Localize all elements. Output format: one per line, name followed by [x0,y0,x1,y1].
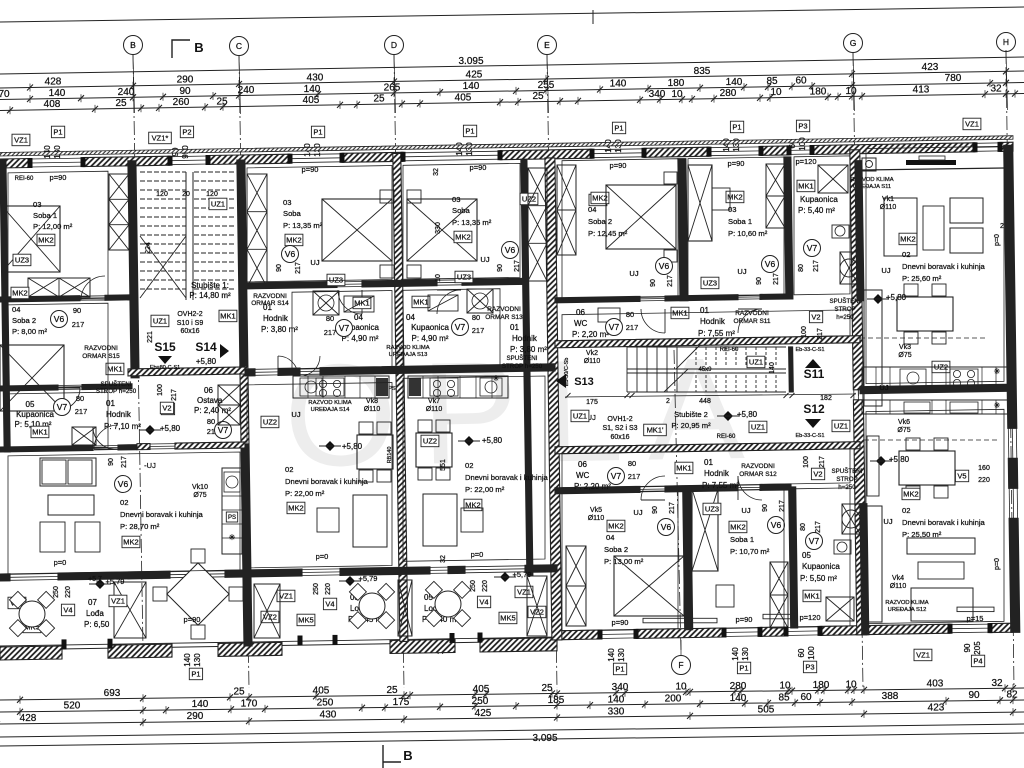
svg-text:P3: P3 [798,122,807,131]
svg-text:p=90: p=90 [728,159,745,168]
svg-text:85: 85 [766,76,778,87]
svg-text:140: 140 [769,362,776,374]
svg-text:32: 32 [433,168,440,176]
svg-text:02: 02 [285,465,293,474]
svg-text:01: 01 [700,306,709,315]
svg-text:280: 280 [720,88,737,99]
svg-text:175: 175 [393,697,410,708]
svg-text:200: 200 [665,694,682,705]
svg-text:+5,80: +5,80 [737,410,758,419]
svg-text:217: 217 [819,456,826,468]
svg-text:MK2: MK2 [38,236,53,245]
svg-text:07: 07 [88,598,97,607]
svg-text:182: 182 [820,395,832,402]
svg-text:140: 140 [183,653,192,667]
svg-text:p=0: p=0 [994,558,1001,570]
svg-text:265: 265 [384,83,401,94]
svg-text:P: 8,00 m²: P: 8,00 m² [12,327,47,336]
svg-text:V6: V6 [659,261,670,271]
svg-text:P: 13,35 m²: P: 13,35 m² [452,218,492,227]
svg-text:P: 28,70 m²: P: 28,70 m² [120,522,160,531]
svg-text:P4: P4 [973,657,982,666]
svg-text:255: 255 [538,80,555,91]
svg-text:100: 100 [157,384,164,396]
svg-text:MK1: MK1 [798,182,813,191]
svg-text:80: 80 [207,417,215,426]
svg-text:140: 140 [726,77,743,88]
svg-text:Dnevni boravak i kuhinja: Dnevni boravak i kuhinja [465,473,549,482]
svg-text:175: 175 [586,399,598,406]
svg-text:280: 280 [730,681,747,692]
svg-text:220: 220 [978,477,990,484]
svg-text:p=90: p=90 [184,615,201,624]
svg-text:V7: V7 [455,322,466,332]
svg-text:250: 250 [313,583,320,595]
svg-text:V6: V6 [765,259,776,269]
svg-text:ORMAR S15: ORMAR S15 [82,353,120,360]
svg-text:Eb-33-C-S1: Eb-33-C-S1 [795,433,824,439]
svg-text:80: 80 [326,314,334,323]
svg-text:60: 60 [797,648,806,657]
svg-text:V2: V2 [813,470,822,479]
svg-text:p=120: p=120 [799,613,820,622]
svg-text:UJ: UJ [629,269,638,278]
svg-text:Ø110: Ø110 [588,515,605,522]
svg-text:180: 180 [813,680,830,691]
svg-text:RAZVOD KLIMA: RAZVOD KLIMA [386,345,429,351]
svg-text:85: 85 [778,692,790,703]
svg-text:04: 04 [588,205,596,214]
svg-text:RAZVODNI: RAZVODNI [487,306,521,313]
svg-text:551: 551 [440,459,447,471]
svg-text:217: 217 [324,328,337,337]
svg-text:425: 425 [466,70,483,81]
svg-text:100: 100 [807,646,816,660]
svg-text:UJ: UJ [291,410,300,419]
svg-text:Vk7: Vk7 [428,398,440,405]
svg-text:MK1': MK1' [647,426,664,435]
svg-text:Dnevni boravak i kuhinja: Dnevni boravak i kuhinja [285,477,369,486]
svg-text:06: 06 [578,460,587,469]
svg-text:10: 10 [435,274,442,282]
svg-text:UJ: UJ [480,255,489,264]
svg-text:430: 430 [320,710,337,721]
svg-text:S11: S11 [804,367,825,381]
svg-text:V7: V7 [609,322,620,332]
svg-text:p=90: p=90 [302,165,319,174]
svg-text:520: 520 [64,701,81,712]
svg-text:V6: V6 [505,245,516,255]
svg-text:10: 10 [675,682,687,693]
svg-text:217: 217 [813,260,820,272]
svg-text:80: 80 [800,523,807,531]
svg-text:UZ1: UZ1 [153,317,167,326]
svg-text:Ø110: Ø110 [584,358,601,365]
svg-text:p=0: p=0 [994,234,1001,246]
svg-text:428: 428 [20,713,37,724]
svg-text:REI-60: REI-60 [717,434,736,440]
svg-text:10: 10 [779,680,791,691]
svg-text:p=0: p=0 [316,552,329,561]
svg-text:250: 250 [470,580,477,592]
svg-text:P: 6,50: P: 6,50 [84,620,110,629]
svg-text:Ø75: Ø75 [897,427,910,434]
svg-text:VZ1: VZ1 [517,588,531,597]
svg-text:10: 10 [770,87,782,98]
svg-text:P1: P1 [465,127,474,136]
svg-text:+5,7: +5,7 [88,576,102,583]
svg-text:140: 140 [731,647,740,661]
svg-text:02: 02 [120,498,128,507]
svg-text:ORMAR S12: ORMAR S12 [739,471,777,478]
svg-text:205: 205 [973,641,982,655]
svg-text:UZ3: UZ3 [15,256,29,265]
svg-text:Hodnik: Hodnik [263,314,289,323]
svg-text:90: 90 [650,279,657,287]
svg-text:ORMAR S13: ORMAR S13 [485,314,523,321]
svg-text:P1: P1 [191,670,200,679]
svg-text:05: 05 [26,400,35,409]
svg-text:01: 01 [106,399,115,408]
svg-text:UZ2: UZ2 [522,195,536,204]
svg-text:217: 217 [628,472,641,481]
svg-text:340: 340 [649,89,666,100]
svg-text:06: 06 [576,308,585,317]
svg-text:220: 220 [482,580,489,592]
svg-text:WC: WC [574,319,588,328]
svg-text:UJ: UJ [633,508,642,517]
svg-text:UZ1: UZ1 [751,423,765,432]
svg-text:MK1: MK1 [804,592,819,601]
svg-text:VZ1: VZ1 [965,120,979,129]
svg-text:217: 217 [472,326,485,335]
svg-text:MK2: MK2 [123,538,138,547]
svg-text:Vk5: Vk5 [590,507,602,514]
svg-text:32: 32 [991,678,1003,689]
svg-text:S1, S2 i S3: S1, S2 i S3 [602,425,637,432]
svg-text:p=120: p=120 [795,157,816,166]
svg-text:Hodnik: Hodnik [704,469,730,478]
svg-text:160: 160 [978,465,990,472]
svg-text:P: 12,45 m²: P: 12,45 m² [588,229,628,238]
svg-text:25: 25 [233,687,245,698]
svg-text:V7: V7 [218,425,229,435]
svg-text:p=90: p=90 [736,615,753,624]
svg-text:2: 2 [1000,223,1004,230]
svg-text:P1: P1 [615,665,624,674]
svg-text:V2: V2 [162,404,171,413]
svg-text:90: 90 [108,458,115,466]
svg-text:UREĐAJA S12: UREĐAJA S12 [888,607,927,613]
svg-text:MK2: MK2 [903,490,918,499]
svg-text:3.095: 3.095 [458,56,483,67]
svg-text:+5,80: +5,80 [482,436,503,445]
svg-text:VZ1*: VZ1* [152,134,169,143]
svg-text:408: 408 [44,99,61,110]
svg-text:505: 505 [758,705,775,716]
svg-text:693: 693 [104,688,121,699]
svg-text:140: 140 [463,81,480,92]
svg-text:MK1: MK1 [676,464,691,473]
svg-text:P: 2,20 m²: P: 2,20 m² [574,482,611,491]
svg-text:UJ: UJ [737,267,746,276]
svg-text:Kupaonica: Kupaonica [800,195,838,204]
svg-text:120: 120 [156,191,168,198]
svg-text:MK1: MK1 [107,365,122,374]
svg-text:V5: V5 [957,472,966,481]
svg-text:20: 20 [182,191,190,198]
svg-text:S15: S15 [154,340,176,354]
svg-text:G: G [850,38,857,48]
svg-text:217: 217 [669,502,676,514]
svg-text:82: 82 [1006,690,1018,701]
svg-text:UZ1: UZ1 [749,358,763,367]
svg-text:Vk10: Vk10 [192,484,208,491]
svg-text:Ø110: Ø110 [364,406,381,413]
svg-text:01: 01 [704,458,713,467]
svg-text:25: 25 [386,685,398,696]
svg-text:03: 03 [283,198,291,207]
svg-text:VZ1: VZ1 [279,592,293,601]
svg-text:UZ1: UZ1 [573,412,587,421]
svg-text:Vk3: Vk3 [899,344,911,351]
svg-text:80: 80 [76,394,84,403]
svg-text:70: 70 [0,89,10,100]
svg-text:217: 217 [773,273,780,285]
svg-text:h=250: h=250 [838,484,856,491]
svg-text:Vk8: Vk8 [366,398,378,405]
svg-text:UZ2: UZ2 [423,437,437,446]
svg-text:185: 185 [548,695,565,706]
svg-text:UZ3: UZ3 [703,279,717,288]
svg-text:Lođa: Lođa [86,609,104,618]
svg-text:STROP: STROP [834,306,855,313]
svg-text:Soba 1: Soba 1 [730,535,754,544]
svg-text:+5,79: +5,79 [106,577,125,586]
svg-text:UZ2: UZ2 [263,418,277,427]
svg-text:Stubište 1:: Stubište 1: [191,281,229,290]
svg-text:32: 32 [440,555,447,563]
svg-text:Dnevni boravak i kuhinja: Dnevni boravak i kuhinja [902,262,986,271]
svg-text:90: 90 [963,643,972,652]
svg-text:V6: V6 [661,522,672,532]
svg-text:388: 388 [882,691,899,702]
svg-text:90: 90 [179,86,191,97]
svg-text:MK2: MK2 [608,522,623,531]
svg-text:Ø75: Ø75 [193,492,206,499]
svg-text:MK2: MK2 [288,504,303,513]
svg-text:STROP h=250: STROP h=250 [96,388,137,395]
svg-text:B: B [194,40,203,55]
svg-text:10: 10 [845,680,857,691]
svg-text:REI-60: REI-60 [720,347,739,353]
svg-text:04: 04 [606,533,614,542]
svg-text:90: 90 [652,506,659,514]
svg-text:25: 25 [373,94,385,105]
svg-text:UREĐAJA S13: UREĐAJA S13 [389,352,428,358]
svg-text:60x16: 60x16 [610,434,629,441]
svg-text:H: H [1003,37,1009,47]
svg-text:25: 25 [115,98,127,109]
svg-text:224: 224 [145,242,152,254]
svg-text:✳: ✳ [229,533,236,542]
svg-text:2: 2 [666,398,670,405]
svg-text:217: 217 [72,320,85,329]
svg-text:SPUŠTENI: SPUŠTENI [507,355,538,362]
svg-text:Eb-30/C-Sb: Eb-30/C-Sb [564,358,570,387]
svg-text:140: 140 [49,88,66,99]
svg-text:25: 25 [216,96,228,107]
svg-text:OVH1-2: OVH1-2 [607,416,632,423]
svg-text:OVH2-2: OVH2-2 [177,311,202,318]
svg-text:MK1: MK1 [413,298,428,307]
svg-text:MK5: MK5 [298,616,313,625]
svg-text:P: 5,40 m²: P: 5,40 m² [798,206,835,215]
svg-text:MK1: MK1 [354,299,369,308]
svg-text:UZ3: UZ3 [457,273,471,282]
svg-text:250: 250 [53,586,60,598]
svg-text:VZ1: VZ1 [916,651,930,660]
svg-text:290: 290 [187,711,204,722]
svg-text:448: 448 [699,398,711,405]
svg-text:+5,79: +5,79 [359,574,378,583]
svg-text:V6: V6 [118,479,129,489]
svg-text:P1: P1 [614,124,623,133]
svg-text:405: 405 [455,92,472,103]
svg-text:405: 405 [303,95,320,106]
svg-text:UZ1: UZ1 [211,200,225,209]
svg-text:ORMAR S11: ORMAR S11 [733,318,770,325]
svg-text:RAZVODNI: RAZVODNI [84,345,118,352]
svg-text:03: 03 [728,205,736,214]
svg-text:Soba: Soba [283,209,302,218]
svg-text:Soba: Soba [452,206,471,215]
svg-text:780: 780 [945,73,962,84]
svg-text:25: 25 [541,683,553,694]
svg-text:P: 4,90 m²: P: 4,90 m² [412,334,449,343]
svg-text:180: 180 [668,78,685,89]
svg-text:835: 835 [694,66,711,77]
svg-text:Dnevni boravak i kuhinja: Dnevni boravak i kuhinja [120,510,204,519]
svg-text:P2: P2 [182,128,191,137]
svg-text:130: 130 [617,648,626,662]
svg-text:428: 428 [45,77,62,88]
svg-text:140: 140 [722,138,731,152]
svg-text:05: 05 [802,551,811,560]
svg-text:01: 01 [510,323,519,332]
svg-text:425: 425 [475,708,492,719]
svg-text:220: 220 [65,586,72,598]
svg-text:UJ: UJ [310,258,319,267]
svg-text:RAZVOD KLIMA: RAZVOD KLIMA [308,400,351,406]
svg-text:Stubište 2: Stubište 2 [674,410,708,419]
svg-text:P3: P3 [805,663,814,672]
svg-text:V7: V7 [611,471,622,481]
svg-text:p=90: p=90 [612,618,629,627]
svg-text:100: 100 [801,326,808,338]
svg-text:P1: P1 [732,123,741,132]
svg-text:140: 140 [610,79,627,90]
svg-text:Eb=80-C-S1: Eb=80-C-S1 [150,365,180,371]
svg-text:P: 14,80 m²: P: 14,80 m² [189,291,231,300]
svg-text:p=90: p=90 [610,161,627,170]
svg-text:Ø110: Ø110 [890,583,907,590]
svg-text:217: 217 [121,456,128,468]
svg-text:RAZVODNI: RAZVODNI [741,463,775,470]
svg-text:p=0: p=0 [471,550,484,559]
svg-text:25: 25 [532,91,544,102]
svg-text:140: 140 [192,699,209,710]
svg-text:VZ1: VZ1 [111,597,125,606]
svg-text:UZ1: UZ1 [834,422,848,431]
svg-text:+5,79: +5,79 [513,570,532,579]
svg-text:P: 20,95 m²: P: 20,95 m² [671,421,711,430]
svg-text:P1: P1 [313,128,322,137]
svg-text:S10 i S9: S10 i S9 [177,320,204,327]
svg-text:p=0: p=0 [54,558,67,567]
svg-text:P: 2,20 m²: P: 2,20 m² [572,330,609,339]
svg-text:P: 25,60 m²: P: 25,60 m² [902,274,942,283]
svg-text:330: 330 [435,222,442,234]
svg-text:Soba 1: Soba 1 [728,217,752,226]
svg-text:430: 430 [307,72,324,83]
svg-text:MK2: MK2 [455,233,470,242]
svg-text:P: 7,10 m²: P: 7,10 m² [104,422,141,431]
svg-text:220: 220 [325,583,332,595]
svg-text:P: 10,60 m²: P: 10,60 m² [728,229,768,238]
svg-text:Dnevni boravak i kuhinja: Dnevni boravak i kuhinja [902,518,986,527]
svg-text:E: E [544,40,550,50]
svg-text:P: 22,00 m²: P: 22,00 m² [285,489,325,498]
svg-text:Vk4: Vk4 [892,575,904,582]
svg-text:Hodnik: Hodnik [512,334,538,343]
svg-text:217: 217 [779,500,786,512]
svg-text:UJ: UJ [881,266,890,275]
svg-text:P1: P1 [739,664,748,673]
svg-text:02: 02 [902,506,910,515]
svg-text:P: 22,00 m²: P: 22,00 m² [465,485,505,494]
svg-text:130: 130 [193,653,202,667]
svg-text:UJ: UJ [879,383,888,392]
svg-text:V4: V4 [63,606,72,615]
svg-text:SPUŠTENI: SPUŠTENI [832,468,863,475]
svg-text:130: 130 [741,647,750,661]
svg-text:217: 217 [171,389,178,401]
svg-text:Soba 1: Soba 1 [33,211,57,220]
svg-text:217: 217 [667,275,674,287]
svg-text:240: 240 [118,87,135,98]
svg-text:Ø75: Ø75 [898,352,911,359]
svg-text:Kupaonica: Kupaonica [802,562,840,571]
svg-text:V7: V7 [339,323,350,333]
svg-text:WC: WC [576,471,590,480]
svg-text:Vk2: Vk2 [586,350,598,357]
svg-text:MK2: MK2 [900,235,915,244]
svg-text:F: F [678,660,683,670]
svg-text:p=90: p=90 [50,173,67,182]
svg-text:170: 170 [241,699,258,710]
svg-text:C: C [236,41,242,51]
svg-text:B: B [403,748,412,763]
svg-text:Hodnik: Hodnik [700,317,726,326]
svg-text:+5,80: +5,80 [196,357,217,366]
svg-text:Ø110: Ø110 [426,406,443,413]
svg-text:60: 60 [795,76,807,87]
svg-text:405: 405 [473,684,490,695]
svg-text:100: 100 [803,456,810,468]
svg-text:90: 90 [276,264,283,272]
svg-text:413: 413 [913,85,930,96]
